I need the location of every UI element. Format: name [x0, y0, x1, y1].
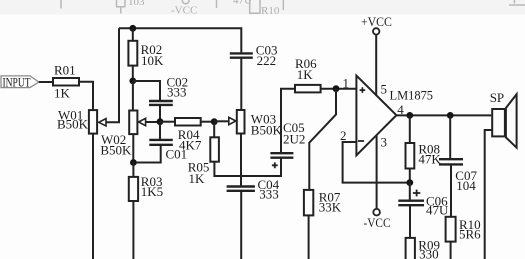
- wire rail to R02: [132, 28, 134, 41]
- svg-text:2U2: 2U2: [283, 131, 305, 146]
- svg-text:104: 104: [456, 178, 476, 193]
- svg-text:B50K: B50K: [57, 116, 89, 131]
- wire W03 bottom to C04: [240, 134, 242, 187]
- -VCC terminal fragment: [182, 0, 189, 4]
- resistor R08: [406, 141, 442, 168]
- +VCC terminal: [361, 14, 392, 35]
- resistor R01: [53, 62, 79, 100]
- resistor R03: [129, 174, 163, 201]
- resistor R10: [446, 217, 482, 242]
- svg-text:330: 330: [419, 247, 439, 259]
- node R02 / W02 / C02: [129, 78, 136, 85]
- wire: [216, 0, 218, 8]
- svg-text:C01: C01: [166, 146, 188, 161]
- wire +input node to R07: [309, 89, 336, 190]
- wire top rail: [119, 28, 241, 53]
- wire +VCC to pin5: [375, 35, 377, 96]
- capacitor C07: [439, 159, 477, 193]
- -VCC terminal: [364, 209, 391, 230]
- wire R01 to W01 top: [79, 82, 93, 110]
- node feedback R08/C06: [406, 179, 413, 186]
- svg-text:33K: 33K: [319, 200, 342, 215]
- svg-text:103: 103: [128, 0, 145, 8]
- wire node to R05: [213, 122, 215, 138]
- svg-text:R10: R10: [261, 5, 280, 17]
- wire C05 to R06: [281, 89, 295, 154]
- wire R04 to node: [201, 121, 215, 123]
- resistor R07: [304, 190, 342, 216]
- svg-text:1K: 1K: [297, 67, 314, 82]
- svg-text:-VCC: -VCC: [364, 215, 391, 230]
- resistor fragment: [250, 0, 260, 13]
- potentiometer W03: [229, 110, 283, 137]
- node output/R08: [406, 112, 413, 119]
- svg-text:B50K: B50K: [251, 122, 283, 137]
- wire pin2 feedback loop: [343, 142, 410, 183]
- wire input to R01: [39, 81, 53, 83]
- wire W02 top: [132, 81, 134, 111]
- wire C01 to W02 bottom node: [133, 145, 160, 163]
- wire node to C06: [409, 183, 411, 201]
- wire W02 wiper to node: [146, 121, 160, 123]
- potentiometer W01: [57, 108, 106, 134]
- svg-text:1K: 1K: [189, 171, 206, 186]
- wire output node to C07: [449, 115, 451, 159]
- capacitor C03: [230, 43, 278, 69]
- svg-text:LM1875: LM1875: [390, 88, 434, 103]
- wire R02 to node: [132, 66, 134, 81]
- node top rail / R02: [129, 25, 136, 32]
- node wiper/C02/R04/C01: [157, 118, 164, 125]
- wire node to R03: [132, 163, 134, 177]
- wire W02 bottom: [132, 134, 134, 162]
- wire R03 to ground edge: [132, 201, 134, 259]
- wire: [282, 0, 284, 10]
- wire C04 to ground edge: [240, 191, 242, 259]
- svg-text:10K: 10K: [141, 53, 164, 68]
- wire: [509, 0, 525, 5]
- capacitor C05: [270, 120, 305, 168]
- resistor R06: [295, 56, 321, 93]
- wire C02 to wiper node: [159, 105, 161, 122]
- resistor R04: [175, 118, 202, 153]
- wire output node to R08: [409, 115, 411, 143]
- wire speaker return: [485, 130, 493, 259]
- top cropped grey schematic strip background: [0, 0, 525, 15]
- wire node to W03 wiper: [214, 120, 229, 122]
- svg-text:B50K: B50K: [100, 142, 132, 157]
- potentiometer W02: [100, 111, 145, 158]
- wire C07 to R10: [450, 164, 452, 216]
- svg-text:1K5: 1K5: [141, 184, 163, 199]
- op-amp U1 LM1875: [340, 76, 433, 156]
- wire output: [396, 114, 491, 116]
- resistor R09: [406, 238, 440, 259]
- svg-text:333: 333: [259, 187, 279, 202]
- wire C03 to W03 top: [240, 58, 242, 110]
- svg-text:333: 333: [167, 85, 187, 100]
- speaker SP: [490, 90, 517, 148]
- wire node to C02: [133, 81, 160, 101]
- node +input: [333, 85, 340, 92]
- svg-text:1K: 1K: [54, 86, 71, 101]
- wire pin3 to -VCC: [376, 135, 378, 209]
- svg-text:5: 5: [381, 82, 388, 97]
- capacitor C04: [227, 177, 280, 201]
- node W02/C01/R03: [130, 159, 137, 166]
- wire R06 to op-amp +input: [321, 88, 357, 90]
- wire: [60, 0, 62, 9]
- svg-text:INPUT: INPUT: [3, 74, 31, 89]
- svg-text:-VCC: -VCC: [171, 5, 197, 17]
- node R04/R05/W03 wiper: [211, 118, 218, 125]
- INPUT connector: [1, 74, 39, 89]
- svg-text:R01: R01: [54, 62, 76, 77]
- svg-text:47K: 47K: [418, 151, 441, 166]
- svg-text:47U: 47U: [426, 203, 449, 218]
- capacitor fragment: [116, 0, 126, 14]
- resistor R02: [128, 41, 164, 68]
- wire node to R04: [160, 121, 175, 123]
- svg-text:+VCC: +VCC: [361, 14, 392, 29]
- capacitor C01: [149, 140, 187, 162]
- wire W01 wiper to top rail: [106, 28, 119, 122]
- wire R10 to ground edge: [450, 242, 452, 259]
- wire W01 bottom to ground edge: [92, 134, 94, 259]
- svg-text:222: 222: [257, 53, 277, 68]
- capacitor C02: [149, 75, 188, 105]
- resistor R05: [188, 137, 219, 186]
- svg-text:5R6: 5R6: [459, 227, 481, 242]
- svg-text:SP: SP: [490, 90, 504, 105]
- wire R07 to ground edge: [308, 215, 310, 259]
- capacitor C06: [398, 190, 449, 218]
- svg-text:1: 1: [343, 76, 350, 91]
- node output/C07: [447, 112, 454, 119]
- svg-text:2: 2: [340, 128, 347, 143]
- wire C06 to R09: [409, 205, 411, 238]
- svg-text:3: 3: [381, 135, 388, 150]
- wire R05 bottom rail to C05: [214, 158, 281, 176]
- wire R08 to feedback node: [409, 169, 411, 183]
- wire node to C01: [159, 122, 161, 139]
